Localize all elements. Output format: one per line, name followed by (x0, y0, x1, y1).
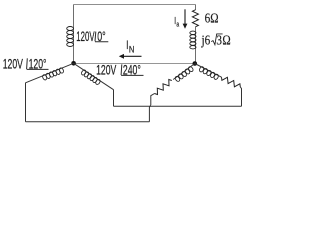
svg-text:120V: 120V (76, 30, 95, 45)
source V3 coil (120V 240deg) (81, 69, 101, 85)
svg-text:j6: j6 (201, 32, 211, 47)
label IN with left arrow (119, 40, 142, 59)
svg-text:6Ω: 6Ω (205, 10, 219, 25)
inductor j6sqrt3 coil (190, 31, 196, 49)
wire: right vertical top stub (load A) (195, 5, 197, 11)
svg-text:3: 3 (216, 32, 222, 47)
resistor 6ohm (192, 10, 198, 27)
wire: right vertical mid (between R and L) (195, 27, 197, 64)
svg-text:a: a (176, 21, 179, 29)
source V2 coil (120V 120deg) (42, 67, 64, 80)
svg-text:120°: 120° (29, 56, 47, 72)
wire: load C corner vertical down (240, 87, 241, 106)
wire: load B vertical lower (hop jog) (149, 105, 150, 122)
wire: load C diagonal from N2 (195, 64, 222, 78)
label 120V 240deg (96, 62, 143, 78)
label 120V 120deg (3, 56, 49, 72)
wire: source B left vertical down (25, 83, 27, 122)
wire: load B diagonal from N2 (173, 64, 195, 80)
load B resistor (155, 80, 172, 95)
svg-text:Ω: Ω (222, 32, 230, 47)
wire: source B diagonal (N1 down-left) (26, 63, 74, 83)
wire: load B corner to vertical (151, 94, 155, 106)
label j6sqrt3 ohm (201, 32, 231, 47)
label 120V 0deg (76, 30, 108, 45)
load C resistor (222, 77, 241, 87)
wire: left vertical (source A branch) (73, 5, 75, 64)
wire: source C diagonal (N1 down-right) (74, 63, 114, 89)
svg-text:120V: 120V (3, 56, 23, 72)
svg-text:120V: 120V (96, 62, 116, 78)
wire: neutral from N1 to N2 (74, 63, 195, 65)
svg-text:I: I (126, 40, 128, 53)
node N1 (source neutral) (71, 61, 76, 66)
svg-text:240°: 240° (123, 62, 141, 78)
wire: top wire from phase A source to load A (74, 4, 196, 6)
load B coil (174, 66, 194, 82)
source V1 coil (120V 0deg) (67, 27, 74, 47)
node N2 (load neutral) (193, 61, 198, 66)
svg-text:N: N (129, 43, 134, 54)
wire: phase C horizontal (114, 105, 242, 107)
wire: source C vertical down (113, 90, 115, 107)
wire: bottom wire (phase B) (26, 121, 150, 123)
label Ia with down arrow (174, 9, 187, 29)
load C coil (199, 66, 219, 80)
svg-text:0°: 0° (97, 30, 106, 44)
